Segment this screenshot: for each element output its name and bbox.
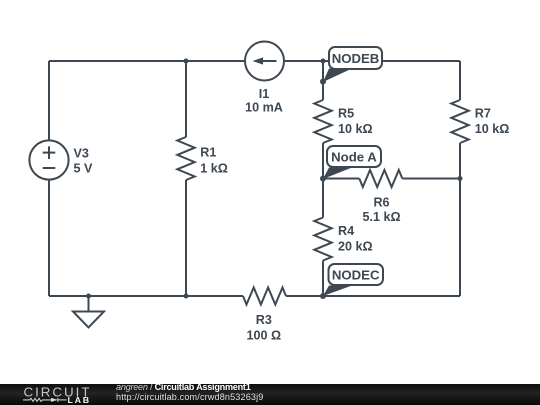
resistor R7 [451, 100, 468, 143]
wire R4 to bottom wire [322, 261, 324, 297]
junction dot R1 bottom [184, 294, 189, 299]
svg-text:10 mA: 10 mA [245, 100, 283, 114]
node NODEB flag dot [320, 79, 326, 85]
node NODEB box [329, 47, 382, 69]
resistor R4 [314, 218, 331, 261]
svg-text:I1: I1 [259, 87, 270, 101]
resistor R1 [177, 137, 194, 180]
CircuitLab logo [0, 384, 110, 405]
current source I1 arrowhead [253, 57, 264, 64]
svg-text:5.1 kΩ: 5.1 kΩ [362, 210, 400, 224]
svg-text:R7: R7 [475, 107, 491, 121]
wire R5 to R4 through node A [322, 143, 324, 218]
wire R1 column top lead [185, 61, 187, 137]
svg-text:1 kΩ: 1 kΩ [200, 162, 228, 176]
junction dot R1 top [184, 59, 189, 64]
svg-text:R3: R3 [256, 313, 272, 327]
resistor R6 [359, 170, 402, 187]
node NODEC flag dot [320, 293, 326, 299]
wire left vertical (V3 column) [48, 61, 50, 296]
wire bottom left segment [49, 295, 243, 297]
svg-text:10 kΩ: 10 kΩ [338, 122, 373, 136]
resistor R5 [314, 100, 331, 143]
svg-text:R4: R4 [338, 224, 354, 238]
ground stub wire [88, 296, 90, 312]
wire right column bottom [459, 143, 461, 296]
node NODEB flag wedge [323, 69, 352, 83]
svg-text:V3: V3 [74, 146, 89, 160]
footer bar [0, 384, 540, 405]
node A flag dot [320, 176, 326, 182]
node NODEC box [329, 264, 384, 285]
svg-text:10 kΩ: 10 kΩ [475, 122, 510, 136]
wire right column top lead [459, 61, 461, 100]
svg-text:R5: R5 [338, 107, 354, 121]
svg-text:Node A: Node A [331, 150, 377, 165]
svg-text:100 Ω: 100 Ω [246, 328, 281, 342]
wire node A to R6 [323, 178, 359, 180]
node A flag wedge [323, 168, 352, 180]
resistor R3 [243, 288, 286, 305]
junction dot ground [86, 294, 91, 299]
svg-text:LAB: LAB [68, 396, 91, 405]
node NODEC flag wedge [323, 286, 352, 297]
current source I1 [245, 42, 284, 81]
voltage source V3 [29, 140, 68, 179]
footer credit text [116, 383, 416, 402]
svg-text:NODEC: NODEC [332, 268, 380, 283]
wire middle column NODEB to R5 [322, 61, 324, 100]
junction dot R6 right [458, 176, 463, 181]
ground [73, 312, 104, 328]
wire R1 column bottom lead [185, 180, 187, 296]
wire top horizontal from V3 column to right column [49, 60, 460, 62]
svg-text:NODEB: NODEB [332, 51, 380, 66]
wire bottom right segment [286, 295, 460, 297]
svg-text:20 kΩ: 20 kΩ [338, 239, 373, 253]
wire R6 to right column [402, 178, 460, 180]
svg-text:R1: R1 [200, 146, 216, 160]
svg-text:R6: R6 [373, 196, 389, 210]
svg-text:5 V: 5 V [74, 161, 94, 175]
node A box [327, 146, 381, 167]
junction dot NODEB column top [321, 59, 326, 64]
